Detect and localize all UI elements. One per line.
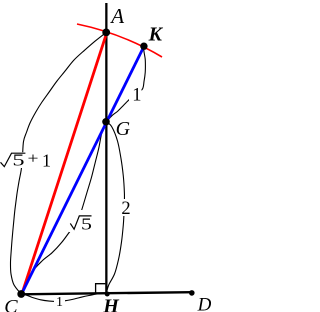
point C dot — [17, 290, 25, 298]
point G dot — [102, 118, 110, 126]
white gap box for label 2 — [119, 199, 131, 216]
svg-text:G: G — [116, 118, 131, 140]
point K dot — [140, 43, 147, 50]
svg-text:C: C — [4, 296, 18, 312]
blue segment C-K through G — [21, 46, 144, 294]
measurement arc for length sqrt(5) from C to G — [21, 122, 106, 294]
white gap box for label 1 (G-K) — [129, 86, 142, 102]
point D dot — [189, 290, 195, 296]
svg-text:H: H — [102, 295, 120, 312]
svg-text:2: 2 — [121, 199, 130, 219]
svg-text:D: D — [197, 295, 211, 312]
red segment C-A — [22, 33, 107, 295]
svg-text:A: A — [109, 4, 124, 28]
measurement arc for length 1 from C to H — [21, 293, 107, 302]
red circular arc through A and K centered at C — [77, 24, 162, 57]
svg-text:1: 1 — [42, 150, 51, 170]
value label sqrt(5) on arc C-G — [70, 214, 92, 233]
svg-text:1: 1 — [56, 295, 63, 310]
point H dot — [105, 292, 110, 297]
white gap box for label sqrt(5)+1 — [0, 152, 51, 168]
measurement arc for length sqrt(5)+1 from C to A — [10, 32, 106, 293]
svg-text:K: K — [148, 23, 164, 45]
white gap box for label sqrt(5) — [69, 210, 92, 232]
svg-text:5: 5 — [81, 214, 92, 233]
vertical segment through A, G, H — [105, 3, 107, 294]
horizontal segment C-D — [21, 292, 192, 294]
value label sqrt(5)+1 on arc C-A — [1, 150, 52, 170]
svg-text:1: 1 — [132, 85, 141, 105]
white gap box for label 1 (C-H) — [54, 295, 65, 307]
right angle mark at H — [96, 284, 106, 293]
svg-text:5: 5 — [12, 150, 24, 169]
point A dot — [102, 29, 110, 37]
measurement arc for length 2 from H to G — [106, 122, 124, 293]
measurement arc for length 1 from G to K — [106, 46, 145, 122]
svg-text:+: + — [28, 150, 39, 167]
